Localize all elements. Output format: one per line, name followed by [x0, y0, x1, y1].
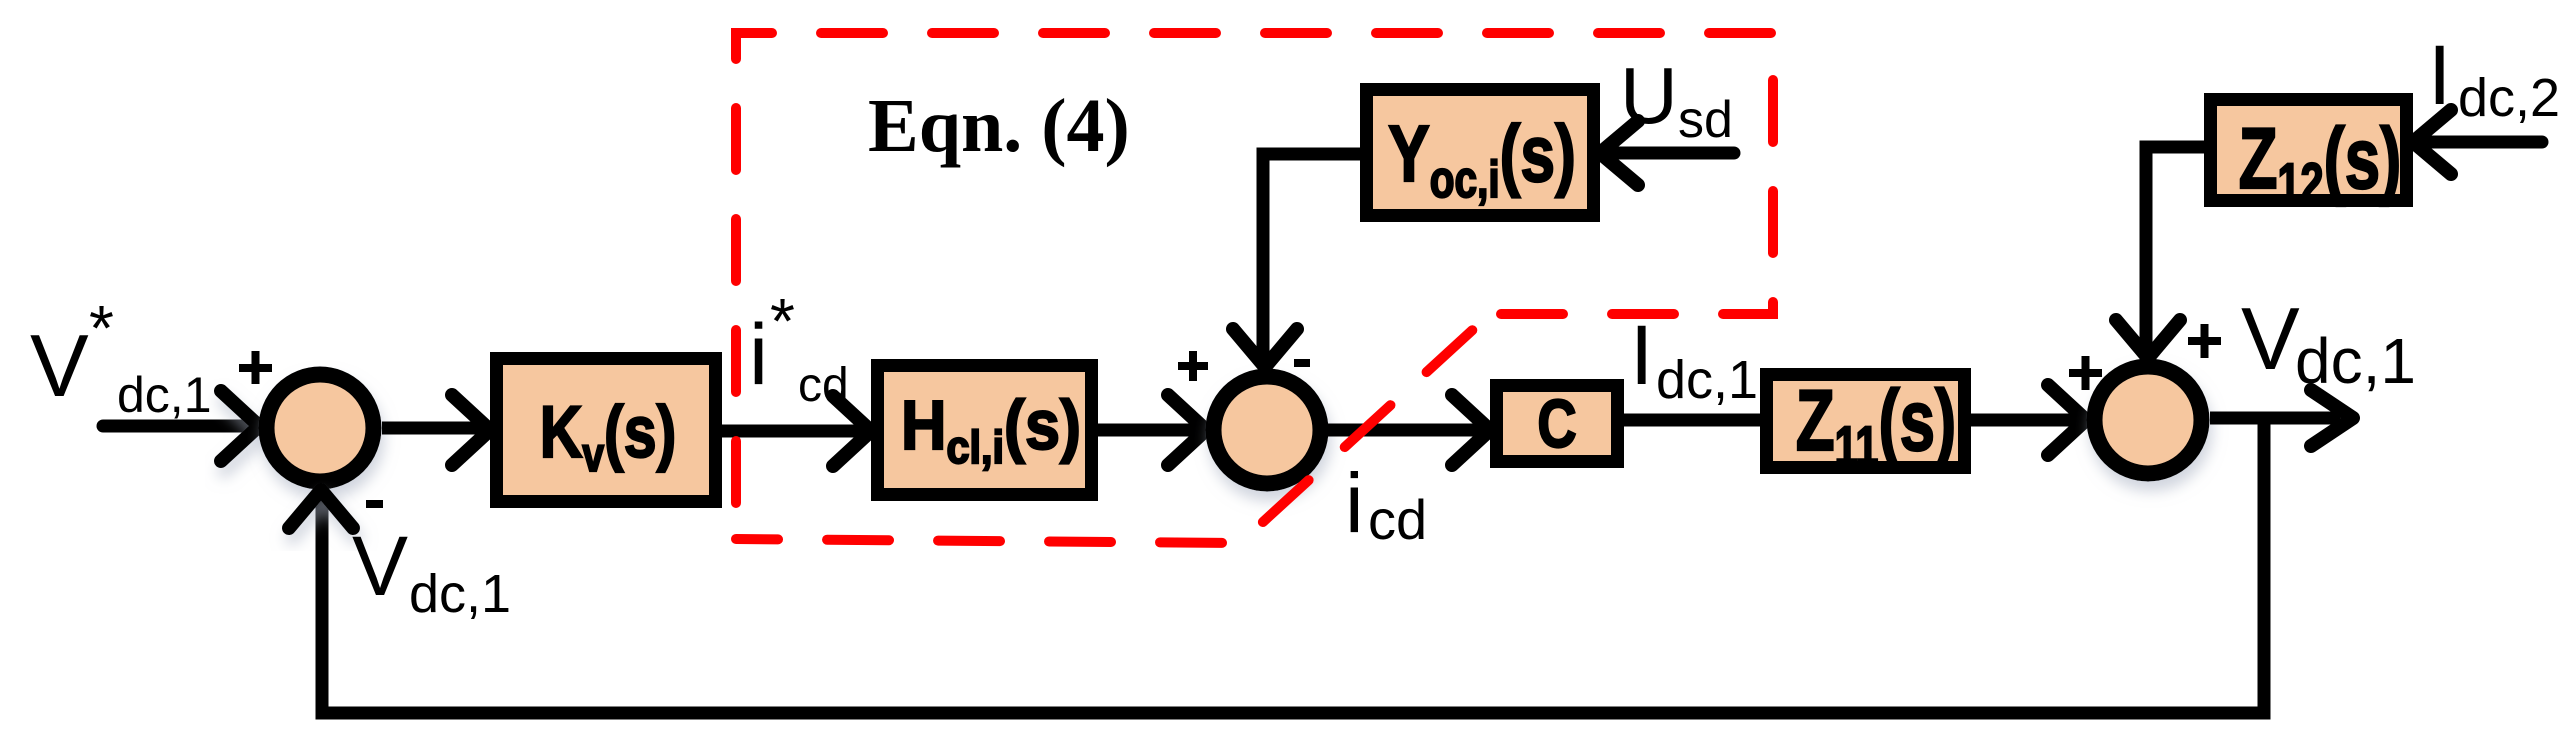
plus sign at S1	[239, 351, 272, 384]
svg-text:I: I	[1630, 308, 1653, 402]
svg-text:dc,2: dc,2	[2458, 68, 2560, 128]
block Hcl,i(s)	[878, 366, 1092, 495]
arrowhead into S2 left	[1168, 395, 1206, 465]
svg-text:sd: sd	[1678, 91, 1733, 149]
arrowhead into Z12(s) right side	[2413, 110, 2451, 174]
label I_dc,2	[2428, 28, 2560, 128]
wire: Z11(s) to summing junction S3	[1971, 414, 2078, 427]
svg-text:Eqn. (4): Eqn. (4)	[868, 84, 1130, 168]
svg-text:cd: cd	[798, 359, 849, 412]
svg-text:C: C	[1537, 386, 1576, 462]
minus sign at S1	[366, 500, 383, 508]
wire: S3 output to the right	[2210, 412, 2340, 425]
svg-text:dc,1: dc,1	[1656, 350, 1758, 410]
block Z11(s)	[1767, 374, 1965, 478]
label i_cd	[1345, 456, 1427, 551]
label i*_cd	[749, 285, 849, 412]
wire: Usd into Yoc,i(s)	[1606, 147, 1734, 160]
label V_dc,1 feedback	[352, 519, 511, 624]
arrowhead into Yoc,i(s) right side	[1600, 121, 1638, 185]
svg-text:V: V	[352, 519, 408, 613]
arrowhead into Kv(s)	[452, 395, 490, 465]
arrowhead into S1 left	[221, 391, 259, 461]
arrowhead into S1 bottom	[289, 490, 353, 528]
wire: feedback from output down, across bottom, up into S1	[322, 418, 2264, 713]
svg-text:*: *	[89, 292, 114, 364]
arrowhead into C	[1452, 395, 1490, 465]
block Z12(s)	[2211, 100, 2407, 215]
arrowhead output Vdc,1	[2311, 390, 2353, 446]
plus sign at S2	[1178, 351, 1208, 381]
svg-text:dc,1: dc,1	[409, 564, 511, 624]
label U_sd	[1620, 51, 1733, 149]
svg-text:i: i	[1345, 456, 1364, 550]
wire: Kv(s) to Hcl,i(s)	[722, 425, 863, 438]
arrowhead into S3 top	[2116, 320, 2180, 358]
wire: Z12(s) to S3 (left then down)	[2146, 147, 2204, 351]
summing junction S2	[1214, 377, 1321, 484]
svg-text:*: *	[770, 285, 795, 357]
wire: input Vdc1* into summing junction S1	[103, 420, 250, 433]
label V*_dc,1 input	[30, 292, 212, 423]
wire: C to Z11(s)	[1624, 414, 1760, 427]
minus sign at S2	[1294, 359, 1310, 367]
block Yoc,i(s)	[1367, 90, 1594, 216]
wire: S2 to C	[1328, 424, 1482, 437]
wire: Yoc,i(s) to S2 (left then down)	[1263, 154, 1360, 360]
wire: Hcl,i(s) to summing junction S2	[1098, 424, 1198, 437]
arrowhead into S2 top	[1233, 329, 1297, 367]
wire: S1 to Kv(s)	[382, 422, 482, 435]
svg-text:I: I	[2428, 28, 2451, 122]
plus sign at S3 left	[2069, 356, 2102, 390]
plus sign at S3 top right	[2188, 324, 2221, 358]
wire: Idc2 into Z12(s)	[2419, 136, 2542, 149]
red dashed diagonal and bottom edge of Eqn.(4) region	[736, 314, 1490, 543]
block C	[1497, 386, 1618, 463]
label I_dc,1	[1630, 308, 1758, 410]
svg-text:V: V	[30, 316, 89, 415]
block Kv(s)	[497, 359, 716, 502]
red dashed region boundary Eqn.(4)	[736, 33, 1773, 539]
svg-text:dc,1: dc,1	[117, 367, 212, 423]
arrowhead into Hcl,i(s)	[833, 396, 871, 466]
summing junction S3	[2095, 367, 2202, 474]
summing junction S1	[267, 375, 374, 482]
svg-text:cd: cd	[1368, 488, 1427, 551]
svg-text:V: V	[2241, 289, 2300, 388]
svg-text:i: i	[749, 307, 768, 403]
svg-text:U: U	[1620, 51, 1678, 140]
label V_dc,1 output	[2241, 289, 2416, 397]
svg-text:Kv(s): Kv(s)	[540, 392, 677, 482]
arrowhead into S3 left	[2048, 385, 2086, 455]
